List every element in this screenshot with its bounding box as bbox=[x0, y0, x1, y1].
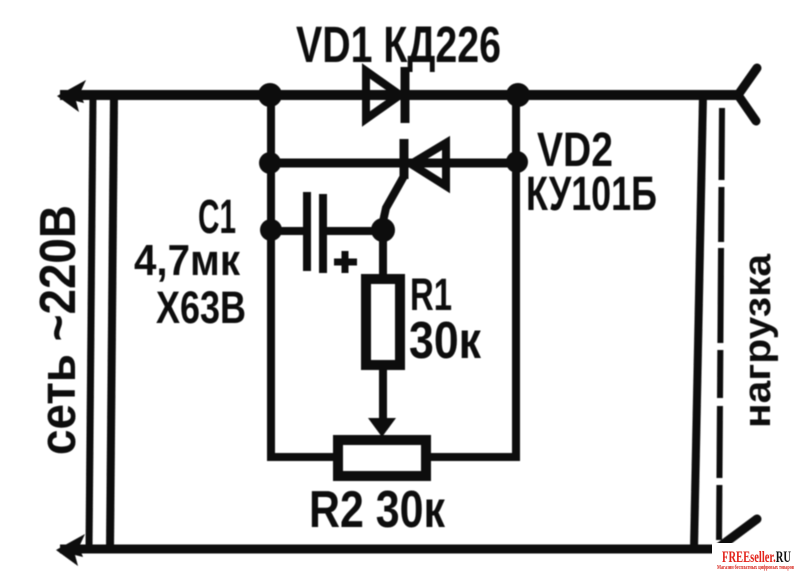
svg-text:Магазин бесплатных цифровых то: Магазин бесплатных цифровых товаров bbox=[717, 564, 795, 571]
wire capacitor to gate node (right segment) bbox=[325, 227, 384, 235]
capacitor C1 bbox=[307, 192, 323, 273]
wire inner bottom left segment bbox=[267, 453, 336, 461]
wire inner bottom right segment bbox=[428, 453, 520, 461]
arrow bottom-left mains bbox=[56, 534, 85, 566]
node dot thyristor row left bbox=[259, 152, 281, 174]
wire right rail line 2 (broken/dashed) bbox=[719, 108, 722, 545]
wire left rail line 1 bbox=[89, 95, 93, 549]
arrow bottom-right load (diagonal, partly under logo) bbox=[718, 519, 757, 548]
C1 polarity plus mark bbox=[334, 251, 357, 273]
svg-text:30к: 30к bbox=[409, 312, 482, 370]
wire right rail line 1 bbox=[694, 95, 703, 549]
svg-text:VD1 КД226: VD1 КД226 bbox=[296, 16, 501, 73]
node dot top-left junction bbox=[258, 83, 282, 107]
node dot capacitor row left bbox=[260, 219, 282, 241]
wire top horizontal (mains to load) bbox=[60, 90, 737, 100]
wire inner right vertical bbox=[512, 95, 520, 457]
svg-text:Х63В: Х63В bbox=[156, 282, 246, 333]
wire capacitor row (left segment) bbox=[271, 227, 303, 235]
arrow top-left mains bbox=[57, 80, 86, 112]
svg-text:FREEseller.RU: FREEseller.RU bbox=[722, 549, 791, 566]
potentiometer R2 bbox=[338, 440, 426, 476]
svg-text:нагрузка: нагрузка bbox=[737, 253, 779, 428]
svg-text:R2 30к: R2 30к bbox=[309, 481, 446, 539]
thyristor VD2 bbox=[382, 139, 446, 226]
node dot top-right junction bbox=[506, 83, 530, 107]
wire left rail line 2 bbox=[110, 95, 114, 549]
wire inner left vertical bbox=[267, 95, 275, 457]
wire bottom horizontal bbox=[60, 545, 716, 554]
resistor R1 bbox=[366, 231, 400, 424]
diode VD1 bbox=[366, 67, 405, 123]
wire thyristor row horizontal bbox=[271, 159, 516, 168]
node dot gate junction bbox=[371, 218, 395, 242]
svg-text:4,7мк: 4,7мк bbox=[134, 236, 241, 285]
arrow top-right load (open chevron) bbox=[738, 68, 757, 121]
svg-text:КУ101Б: КУ101Б bbox=[526, 168, 657, 221]
svg-text:сеть ~220В: сеть ~220В bbox=[29, 205, 86, 455]
logo FREEseller.RU bbox=[712, 543, 807, 585]
node dot thyristor row right bbox=[506, 151, 528, 173]
R1 wiper arrow into R2 bbox=[368, 418, 396, 437]
